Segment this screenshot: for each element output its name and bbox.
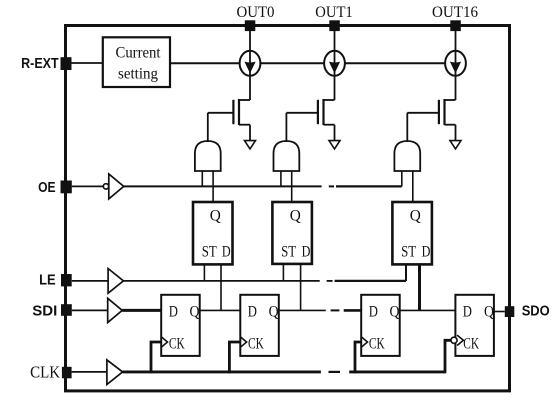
svg-text:D: D bbox=[422, 243, 431, 260]
wire CLK net segment 2 bbox=[349, 370, 445, 373]
svg-text:OUT16: OUT16 bbox=[432, 4, 478, 21]
wire Q1 to FF2 D bbox=[200, 309, 241, 311]
svg-text:Current: Current bbox=[116, 45, 162, 62]
pin OUT0 bbox=[245, 20, 256, 31]
svg-text:LE: LE bbox=[39, 272, 56, 288]
wire Q2 net to FF3 D bbox=[344, 309, 362, 312]
wire LE net segment 2 bbox=[335, 280, 406, 282]
svg-text:Q: Q bbox=[190, 304, 200, 321]
block U1 current setting bbox=[103, 37, 170, 87]
pin LE bbox=[61, 274, 72, 286]
latch L1 bbox=[193, 202, 233, 264]
wire A3 input left bbox=[401, 171, 403, 186]
pin R-EXT bbox=[61, 57, 72, 70]
wire L3 D to Q3 net bbox=[418, 264, 421, 310]
wire R-EXT to current setting bbox=[72, 62, 103, 64]
wire L1 D to Q1 net bbox=[220, 264, 222, 310]
pin SDO bbox=[505, 306, 515, 317]
svg-text:OUT0: OUT0 bbox=[237, 4, 275, 21]
ground G2 bbox=[329, 141, 340, 149]
wire SDI pin to B3 bbox=[72, 309, 108, 311]
buffer B1 OE bbox=[103, 174, 123, 199]
wire CK riser FF1 bbox=[151, 342, 161, 373]
svg-text:D: D bbox=[222, 243, 231, 260]
latch L2 bbox=[272, 202, 312, 264]
buffer B3 SDI bbox=[108, 298, 123, 322]
wire OUT1 vertical bbox=[334, 31, 336, 100]
svg-text:R-EXT: R-EXT bbox=[21, 56, 59, 72]
svg-text:SDI: SDI bbox=[32, 303, 57, 319]
wire A3 input right to latch L3 bbox=[412, 171, 414, 202]
pin OUT16 bbox=[450, 20, 461, 31]
wire OE net segment 1 bbox=[124, 185, 322, 187]
wire A1 input left bbox=[201, 171, 203, 186]
clock chevron FF3 bbox=[361, 337, 367, 348]
ground G3 bbox=[450, 141, 461, 149]
wire A2 input right to latch L2 bbox=[291, 171, 293, 202]
buffer B4 CLK bbox=[107, 360, 123, 385]
current source CS2 bbox=[324, 51, 345, 76]
transistor M3 bbox=[439, 99, 456, 141]
wire CLK net break dash bbox=[329, 371, 341, 373]
svg-text:D: D bbox=[248, 304, 257, 321]
svg-text:D: D bbox=[302, 243, 311, 260]
svg-text:D: D bbox=[369, 304, 378, 321]
svg-text:CK: CK bbox=[248, 336, 264, 353]
clock chevron FF4 bbox=[457, 335, 463, 345]
and-gate A1 bbox=[195, 113, 221, 171]
clock bubble FF4 bbox=[451, 337, 457, 343]
and-gate A2 bbox=[274, 113, 300, 171]
wire L1 ST to LE net bbox=[203, 264, 205, 281]
transistor M1 bbox=[233, 99, 250, 141]
wire SDI to FF1 D bbox=[122, 309, 161, 312]
wire CK riser FF2 bbox=[229, 342, 240, 373]
flip-flop FF3 bbox=[361, 295, 400, 356]
svg-text:Q: Q bbox=[484, 304, 494, 321]
wire bias: current setting to CS1 bbox=[170, 62, 240, 64]
svg-text:ST: ST bbox=[281, 243, 297, 260]
current source CS1 bbox=[240, 51, 261, 76]
svg-text:Q: Q bbox=[410, 207, 421, 224]
pin SDI bbox=[61, 304, 72, 316]
svg-text:ST: ST bbox=[401, 243, 417, 260]
wire L2 D to Q2 net bbox=[300, 264, 302, 311]
svg-text:Q: Q bbox=[290, 207, 301, 224]
svg-text:Q: Q bbox=[269, 304, 279, 321]
wire Q2 net break dash bbox=[331, 309, 340, 311]
wire OUT16 vertical bbox=[455, 31, 457, 100]
chip boundary bbox=[66, 26, 510, 391]
wire CK riser FF4 bbox=[445, 340, 451, 373]
clock chevron FF2 bbox=[240, 337, 246, 348]
flip-flop FF1 bbox=[161, 295, 200, 356]
wire OE net break dash bbox=[329, 185, 334, 187]
svg-text:D: D bbox=[463, 304, 472, 321]
current source CS3 bbox=[445, 51, 466, 76]
and-gate A3 bbox=[394, 113, 420, 171]
svg-text:OUT1: OUT1 bbox=[315, 4, 353, 21]
svg-text:Q: Q bbox=[390, 304, 400, 321]
svg-text:CK: CK bbox=[463, 336, 479, 353]
svg-text:ST: ST bbox=[202, 243, 218, 260]
wire Q3 to FF4 D bbox=[400, 309, 456, 311]
wire A2 input left bbox=[280, 171, 282, 186]
svg-text:Q: Q bbox=[210, 207, 221, 224]
wire LE net break dash bbox=[327, 280, 333, 282]
wire OUT0 vertical bbox=[249, 31, 251, 100]
pin OE bbox=[61, 181, 72, 194]
flip-flop FF2 bbox=[240, 295, 278, 356]
svg-text:setting: setting bbox=[118, 66, 158, 83]
wire OE net segment 2 bbox=[336, 185, 402, 187]
svg-text:CLK: CLK bbox=[30, 362, 60, 381]
wire CLK net segment 1 bbox=[123, 370, 321, 373]
latch L3 bbox=[392, 202, 432, 264]
pin CLK bbox=[62, 367, 72, 379]
wire OE pin to B1 bbox=[72, 185, 104, 187]
wire A1 input right to latch L1 bbox=[212, 171, 214, 202]
svg-text:CK: CK bbox=[169, 336, 185, 353]
wire Q4 to SDO pin bbox=[494, 311, 505, 313]
wire L3 ST to LE net bbox=[405, 264, 407, 281]
wire gate M2 to A2 bbox=[286, 112, 318, 114]
wire bias: CS1 to CS2 bbox=[260, 62, 324, 64]
wire Q2 net segment bbox=[279, 309, 326, 311]
buffer B2 LE bbox=[108, 269, 123, 294]
wire bias: CS2 to CS3 bbox=[345, 62, 445, 64]
wire gate M1 to A1 bbox=[208, 112, 234, 114]
pin OUT1 bbox=[329, 20, 340, 31]
wire CLK pin to B4 bbox=[72, 371, 107, 373]
svg-text:SDO: SDO bbox=[522, 304, 550, 320]
wire LE net segment 1 bbox=[123, 280, 319, 282]
clock chevron FF1 bbox=[161, 337, 167, 348]
wire L2 ST to LE net bbox=[282, 264, 284, 281]
transistor M2 bbox=[318, 99, 335, 141]
svg-text:D: D bbox=[169, 304, 178, 321]
wire gate M3 to A3 bbox=[407, 112, 439, 114]
svg-text:OE: OE bbox=[38, 180, 56, 196]
ground G1 bbox=[245, 141, 256, 149]
wire CK riser FF3 bbox=[355, 342, 361, 373]
svg-text:CK: CK bbox=[369, 336, 385, 353]
flip-flop FF4 bbox=[455, 295, 494, 356]
wire LE pin to B2 bbox=[72, 280, 108, 282]
